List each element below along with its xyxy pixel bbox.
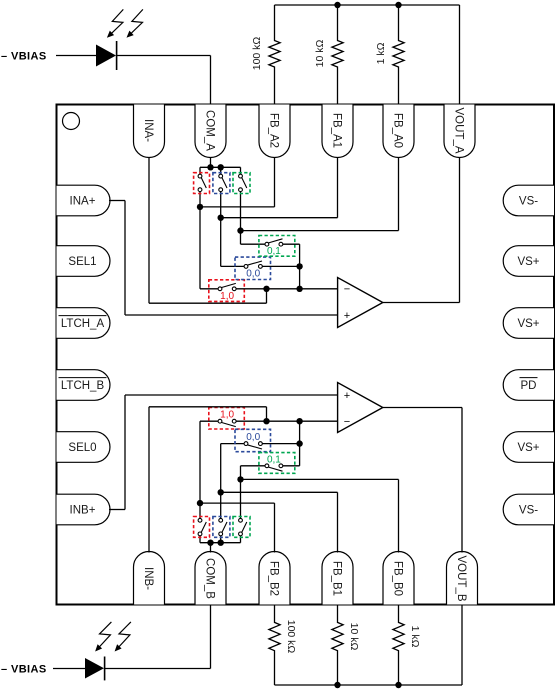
svg-text:INA+: INA+ bbox=[70, 196, 96, 208]
wire B green out bbox=[283, 421, 300, 466]
svg-text:10 kΩ: 10 kΩ bbox=[314, 40, 326, 68]
junction dot A blue row bbox=[218, 215, 224, 221]
pin COM_B (bottom) bbox=[195, 551, 226, 604]
svg-text:INB-: INB- bbox=[142, 567, 154, 590]
svg-text:1,0: 1,0 bbox=[220, 291, 234, 302]
junction dot COM_A/bus A bbox=[207, 164, 213, 170]
node: switch input bus A bbox=[200, 166, 241, 168]
svg-text:VS-: VS- bbox=[519, 505, 538, 517]
label – VBIAS (bottom) bbox=[1, 663, 47, 675]
junction dot bus/1k bbox=[395, 2, 401, 8]
wire to FB_A0 bbox=[241, 158, 399, 231]
pin INA- (top) bbox=[134, 105, 165, 158]
switch SB gain 0,0 (blue) bbox=[235, 429, 271, 451]
pin FB_A1 (top) bbox=[322, 105, 353, 158]
junction dot bus/10k bbox=[334, 2, 340, 8]
pin PD (right 4) bbox=[503, 370, 554, 401]
switch SB0 (input select, grn dashed box) bbox=[233, 479, 250, 542]
svg-text:−: − bbox=[344, 284, 350, 296]
wire INB- to summing node bbox=[149, 407, 267, 553]
photodiode D1 bbox=[96, 41, 117, 70]
node: bottom feedback bus to VOUT_B bbox=[275, 684, 463, 686]
svg-text:VOUT_B: VOUT_B bbox=[455, 555, 467, 601]
wire A inverting input line bbox=[236, 288, 337, 290]
junction dot B red row bbox=[197, 500, 203, 506]
wire VOUT_B down to bus bbox=[461, 605, 463, 686]
pin VS- (right 6) bbox=[503, 494, 554, 525]
svg-text:0,1: 0,1 bbox=[267, 246, 281, 257]
resistor 10 kΩ (top, feedback FB1) bbox=[314, 5, 343, 105]
svg-text:100 kΩ: 100 kΩ bbox=[285, 620, 297, 654]
wire photodiode D2 cathode to COM_B bbox=[105, 605, 211, 669]
switch SA gain 0,1 (green) bbox=[259, 236, 295, 258]
pin FB_A2 (top) bbox=[259, 105, 290, 158]
wire B inverting input line bbox=[236, 420, 337, 422]
svg-text:1 kΩ: 1 kΩ bbox=[375, 42, 387, 64]
wire COM_A to switch bus A bbox=[210, 158, 212, 168]
svg-text:VOUT_A: VOUT_A bbox=[452, 107, 464, 153]
junction dot A INA- tie bbox=[263, 286, 269, 292]
svg-text:SEL1: SEL1 bbox=[68, 256, 96, 268]
junction dot B join red bbox=[296, 418, 302, 424]
svg-text:– VBIAS: – VBIAS bbox=[1, 50, 47, 62]
svg-text:LTCH_B: LTCH_B bbox=[61, 380, 105, 392]
wire to FB_B1 bbox=[221, 492, 338, 552]
node: switch input bus B bbox=[200, 542, 241, 544]
label – VBIAS (top) bbox=[1, 50, 47, 62]
wire U1A output to VOUT_A bbox=[383, 158, 460, 303]
op-amp U1A bbox=[338, 278, 383, 328]
wire A blue out bbox=[263, 265, 300, 267]
wire B red feed bbox=[200, 421, 218, 503]
light arrow 1 (top photodiode) bbox=[107, 9, 123, 37]
pin FB_B0 (bottom) bbox=[383, 551, 414, 604]
svg-text:0,0: 0,0 bbox=[246, 432, 260, 443]
pin COM_A (top) bbox=[195, 105, 226, 158]
wire U1B output to VOUT_B bbox=[383, 408, 462, 553]
wire to FB_B2 bbox=[200, 503, 275, 552]
svg-text:FB_B1: FB_B1 bbox=[330, 561, 342, 596]
wire VBIAS to photodiode anode (bottom) bbox=[53, 668, 85, 670]
light arrow 2 (top photodiode) bbox=[127, 9, 143, 37]
resistor 100 kΩ (bottom, feedback FB2) bbox=[269, 605, 297, 686]
wire A red feed bbox=[200, 207, 218, 289]
wire COM_B to switch bus B bbox=[210, 543, 212, 553]
wire INB+ to op-amp bbox=[109, 395, 338, 510]
svg-text:LTCH_A: LTCH_A bbox=[61, 318, 105, 330]
wire to FB_A2 bbox=[200, 158, 275, 207]
pin VS+ (right 2) bbox=[503, 246, 554, 277]
junction dot bottom bus/1k bbox=[395, 682, 401, 688]
junction dot A join blue bbox=[296, 263, 302, 269]
junction dot A join red bbox=[296, 286, 302, 292]
pin 1 indicator circle bbox=[63, 113, 80, 130]
pin LTCH_B (left) bbox=[57, 370, 110, 401]
svg-text:0,0: 0,0 bbox=[246, 268, 260, 279]
wire VOUT_A up to bus bbox=[459, 5, 461, 105]
light arrow 2 (bottom photodiode) bbox=[115, 622, 131, 652]
IC package body U1 bbox=[57, 105, 555, 605]
svg-text:PD: PD bbox=[521, 380, 537, 392]
resistor 1 kΩ (bottom, feedback FB0) bbox=[393, 605, 421, 686]
wire A green feed bbox=[241, 231, 265, 245]
wire A blue feed bbox=[221, 218, 244, 267]
pin FB_B1 (bottom) bbox=[322, 551, 353, 604]
pin VS- (right 1) bbox=[503, 185, 554, 216]
junction dot bus A/switch bbox=[218, 164, 224, 170]
svg-text:FB_A2: FB_A2 bbox=[267, 113, 279, 148]
wire B green feed bbox=[241, 466, 265, 480]
pin VOUT_A (top) bbox=[444, 105, 475, 158]
junction dot B join blue bbox=[296, 440, 302, 446]
pin SEL0 (left) bbox=[57, 432, 110, 463]
svg-text:SEL0: SEL0 bbox=[68, 442, 96, 454]
wire B blue out bbox=[263, 443, 300, 445]
wire to FB_A1 bbox=[221, 158, 338, 218]
svg-text:INA-: INA- bbox=[142, 119, 154, 142]
switch SA gain 1,0 (red) bbox=[209, 280, 245, 302]
svg-text:+: + bbox=[344, 390, 350, 402]
wire INA+ to op-amp bbox=[109, 201, 338, 316]
svg-text:100 kΩ: 100 kΩ bbox=[251, 37, 263, 71]
svg-text:INB+: INB+ bbox=[70, 505, 96, 517]
pin INA+ (left) bbox=[57, 185, 111, 216]
junction dot B blue row bbox=[218, 489, 224, 495]
pin VOUT_B (bottom) bbox=[447, 551, 478, 604]
switch SA0 (input select, grn dashed box) bbox=[233, 167, 250, 230]
light arrow 1 (bottom photodiode) bbox=[95, 622, 111, 652]
svg-text:+: + bbox=[344, 310, 350, 322]
junction dot COM_B/bus B bbox=[207, 540, 213, 546]
svg-text:FB_A1: FB_A1 bbox=[330, 113, 342, 148]
junction dot B green row bbox=[237, 476, 243, 482]
svg-text:FB_A0: FB_A0 bbox=[391, 113, 403, 148]
wire photodiode D1 cathode to COM_A bbox=[117, 56, 211, 105]
svg-text:0,1: 0,1 bbox=[267, 454, 281, 465]
svg-text:10 kΩ: 10 kΩ bbox=[348, 623, 360, 651]
switch SB1 (input select, blu dashed box) bbox=[213, 492, 230, 542]
wire VBIAS to photodiode anode (top) bbox=[56, 55, 96, 57]
switch SA gain 0,0 (blue) bbox=[235, 257, 271, 279]
resistor 100 kΩ (top, feedback FB2) bbox=[251, 5, 280, 105]
wire B blue feed bbox=[221, 444, 244, 493]
wire A green out bbox=[283, 244, 300, 289]
switch SA1 (input select, blu dashed box) bbox=[213, 167, 230, 217]
pin INB- (bottom) bbox=[134, 551, 165, 604]
junction dot bottom bus/10k bbox=[334, 682, 340, 688]
switch SB2 (input select, red dashed box) bbox=[194, 503, 210, 543]
junction dot B INB- tie bbox=[263, 418, 269, 424]
svg-text:– VBIAS: – VBIAS bbox=[1, 663, 47, 675]
pin FB_A0 (top) bbox=[383, 105, 414, 158]
junction dot bus B/switch bbox=[218, 540, 224, 546]
wire INA- to summing node bbox=[149, 158, 267, 304]
svg-text:VS+: VS+ bbox=[517, 442, 539, 454]
resistor 10 kΩ (bottom, feedback FB1) bbox=[332, 605, 360, 686]
svg-text:1 kΩ: 1 kΩ bbox=[409, 626, 421, 648]
svg-text:COM_B: COM_B bbox=[203, 558, 215, 599]
svg-text:VS-: VS- bbox=[519, 196, 538, 208]
svg-text:FB_B2: FB_B2 bbox=[267, 561, 279, 596]
op-amp U1B bbox=[338, 383, 383, 433]
wire to FB_B0 bbox=[241, 479, 399, 552]
svg-text:FB_B0: FB_B0 bbox=[391, 561, 403, 596]
switch SA2 (input select, red dashed box) bbox=[194, 167, 210, 207]
svg-text:1,0: 1,0 bbox=[220, 410, 234, 421]
pin VS+ (right 3) bbox=[503, 308, 554, 339]
pin LTCH_A (left) bbox=[57, 308, 110, 339]
svg-text:−: − bbox=[344, 416, 350, 428]
svg-text:VS+: VS+ bbox=[517, 318, 539, 330]
pin INB+ (left) bbox=[57, 494, 110, 525]
svg-text:VS+: VS+ bbox=[517, 256, 539, 268]
pin SEL1 (left) bbox=[57, 246, 110, 277]
switch SB gain 0,1 (green) bbox=[259, 453, 295, 474]
switch SB gain 1,0 (red) bbox=[209, 407, 245, 429]
junction dot A green row bbox=[237, 227, 243, 233]
pin FB_B2 (bottom) bbox=[259, 551, 290, 604]
photodiode D2 bbox=[85, 657, 105, 681]
junction dot A red row bbox=[197, 204, 203, 210]
svg-text:COM_A: COM_A bbox=[203, 110, 215, 151]
pin VS+ (right 5) bbox=[503, 432, 554, 463]
resistor 1 kΩ (top, feedback FB0) bbox=[375, 5, 404, 105]
node: top feedback bus to VOUT_A bbox=[275, 4, 460, 6]
